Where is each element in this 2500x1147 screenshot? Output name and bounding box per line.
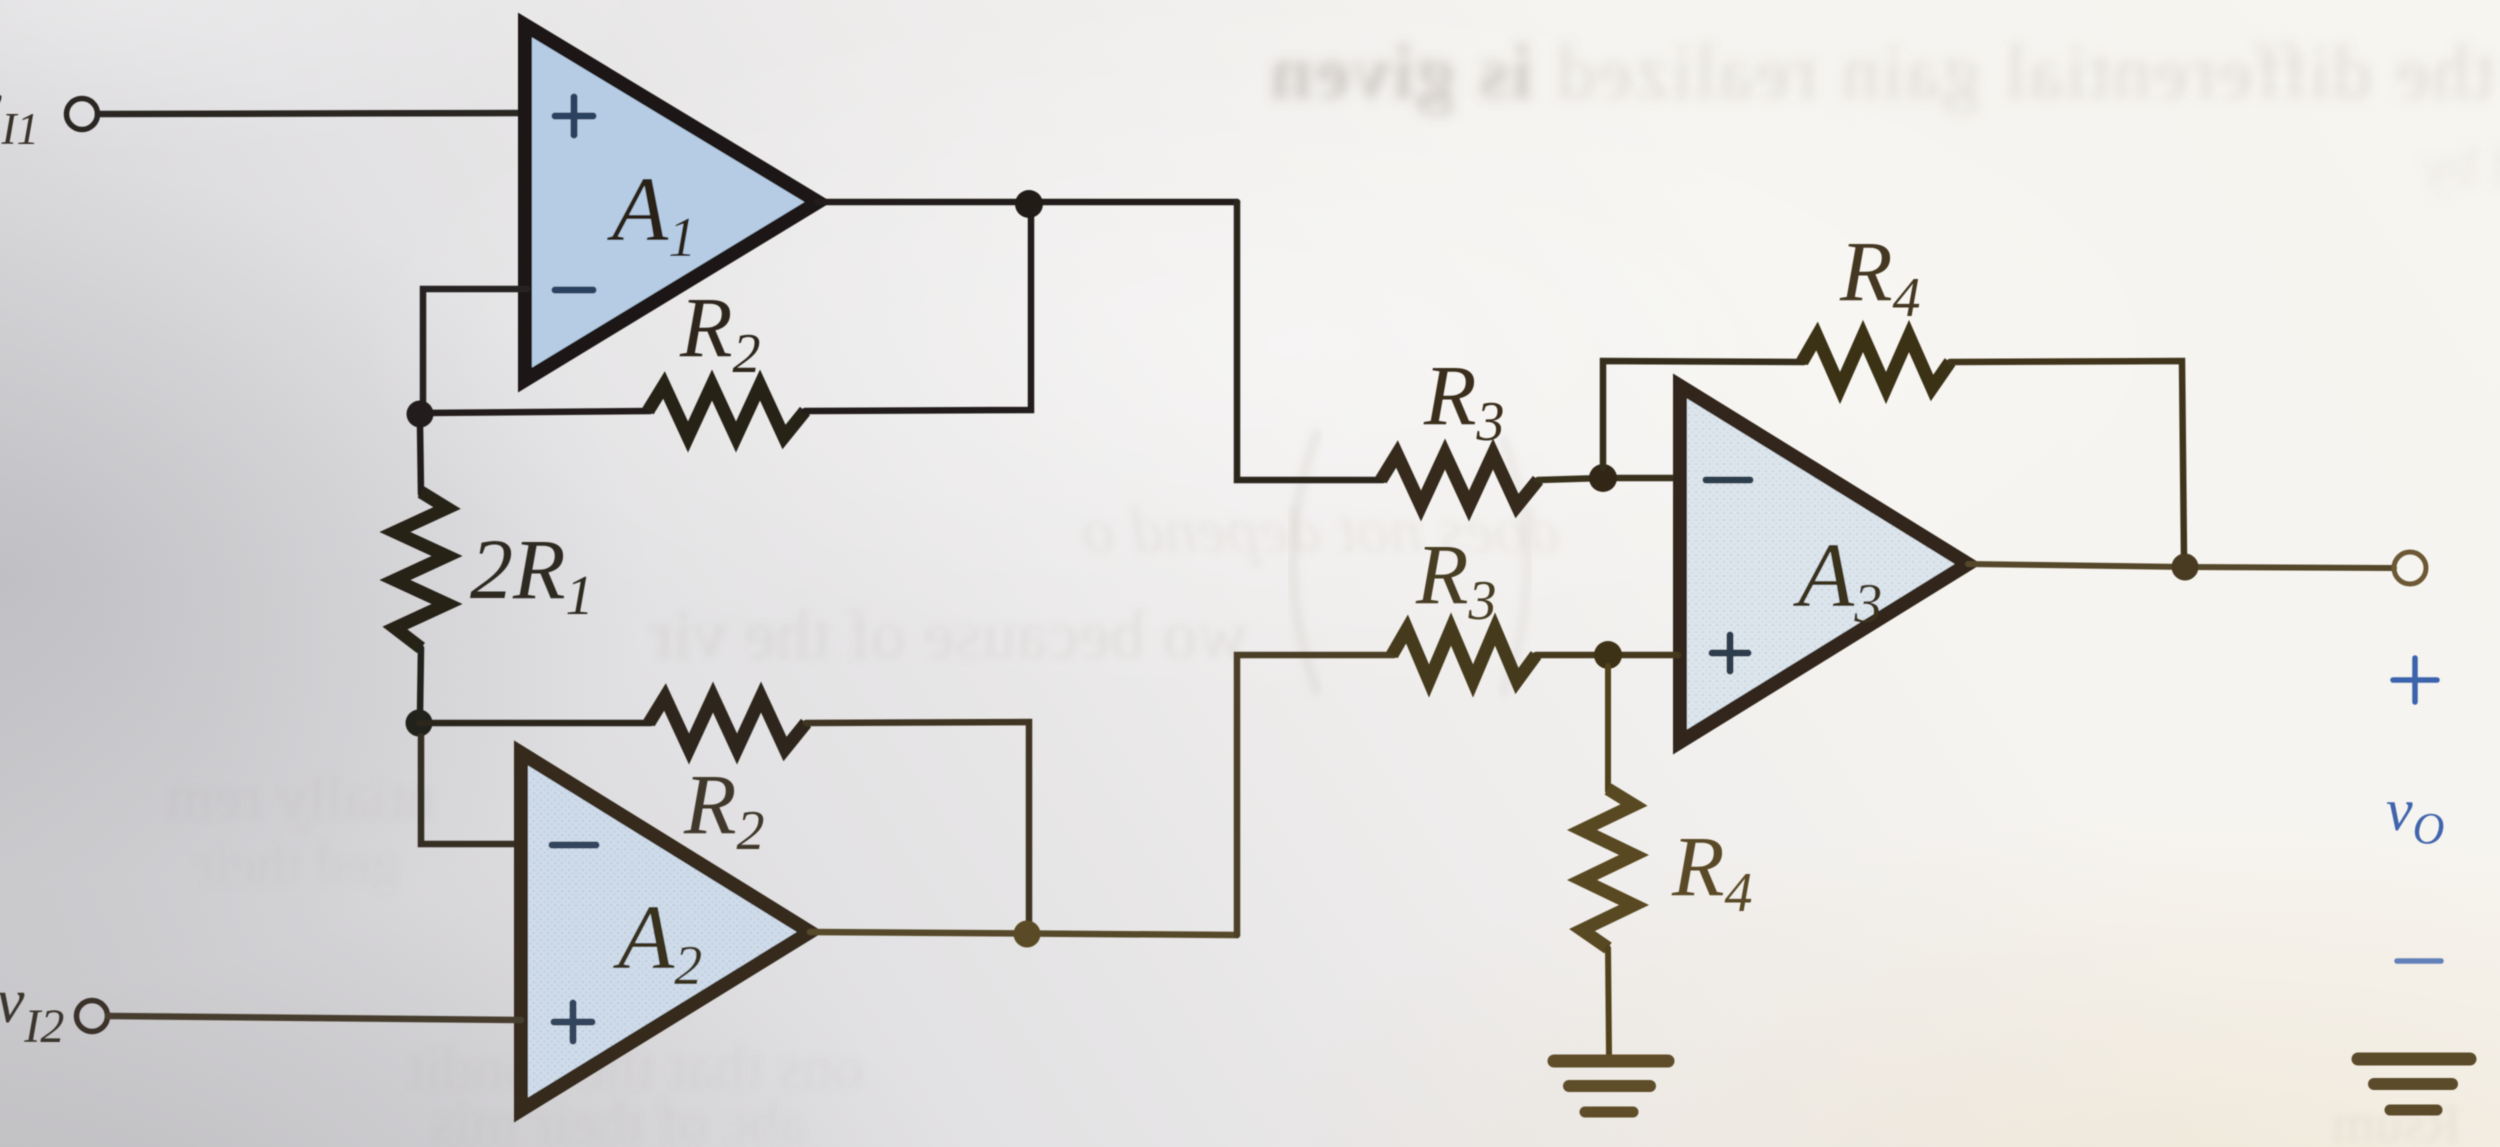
node A junction dot [407,401,434,428]
op-amp A3 minus input marker [1706,477,1750,484]
resistor R2 (top feedback of A1) [648,385,805,437]
op-amp A3 plus input marker [1712,635,1748,671]
op-amp A3 [1680,386,1968,742]
minus sign of vO polarity [2397,958,2441,964]
wire A1 output [818,199,1237,206]
input terminal vI2 [77,1001,108,1032]
svg-text:R2: R2 [679,279,761,385]
node B junction dot (A3 inverting input) [1589,464,1617,492]
wire R2 right end up to A1 output node [805,210,1031,411]
resistor R4 (bottom, to ground) [1582,789,1634,948]
wire node B up to R4 (top) [1603,361,1804,468]
plus sign of vO polarity [2393,658,2437,702]
wire A1 inverting input to node A [423,289,527,404]
svg-text:ed by: ed by [2421,134,2500,199]
resistor R3 (top) [1381,454,1538,506]
wire node D down to R4 (bottom) [1605,666,1611,791]
junction dot A1 output node [1015,190,1043,218]
wire node C to A2 inverting input [421,736,523,844]
svg-text:R4: R4 [1839,223,1921,329]
wire 2R1 down to node C [420,648,421,714]
op-amp A2 minus input marker [552,842,596,849]
node C junction dot [406,710,433,737]
wire A2 output up to R3 (bottom) [1237,655,1394,935]
resistor 2R1 [395,492,447,648]
svg-text:wo because of the vir: wo because of the vir [649,597,1248,674]
svg-text:ged their: ged their [195,832,400,897]
svg-text:Thus the differential gain rea: Thus the differential gain realized is g… [1268,28,2500,115]
wire vI1 to A1 noninverting input [98,113,527,114]
svg-text:R3: R3 [1423,347,1505,453]
op-amp A1 minus input marker [555,287,593,294]
op-amp A2 [521,753,810,1110]
input terminal vI1 [67,99,98,130]
svg-text:ntially rem: ntially rem [166,764,436,832]
svg-text:vO: vO [2386,777,2444,853]
wire R3 to A3 inverting input [1538,478,1678,480]
wire R3 to A3 noninverting input [1536,652,1678,659]
wire A2 output [810,932,1237,935]
wire A1 output node down to R3 (top) [1237,202,1383,480]
op-amp A1 [525,25,818,380]
op-amp A1 plus input marker [555,97,593,135]
ground symbol (below R4) [1554,1061,1668,1112]
output terminal vO [2394,552,2426,584]
node D junction dot (A3 noninverting input) [1594,641,1622,669]
wire R2 right end down to A2 output [806,722,1029,922]
svg-text:abc of their mis: abc of their mis [431,1090,806,1147]
op-amp A2 plus input marker [554,1003,592,1041]
junction dot output node [2172,554,2199,581]
ground symbol (output, bottom right) [2358,1059,2470,1110]
svg-text:R2: R2 [683,756,765,862]
wire R4 right end down to output node [1950,361,2184,558]
svg-text:vI1: vI1 [0,70,39,154]
wire node A to R2 (top) [420,411,650,413]
wire vI2 to A2 noninverting input [108,1016,521,1020]
junction dot A2 output node [1014,921,1041,948]
wire A3 output to terminal vO [1968,564,2394,568]
resistor R2 (feedback of A2) [649,697,806,749]
resistor R3 (bottom) [1392,629,1536,681]
svg-text:R4: R4 [1671,818,1753,924]
wire R4 down to ground [1608,948,1609,1055]
wire node C to R2 (bottom) [419,720,651,727]
svg-text:does not depend o: does not depend o [1082,494,1560,567]
svg-text:vI2: vI2 [0,965,64,1053]
svg-text:2R1: 2R1 [470,521,594,627]
resistor R4 (feedback of A3) [1802,336,1950,388]
svg-text:Rsum: Rsum [2331,1093,2462,1147]
wire node A down to 2R1 [420,424,421,494]
